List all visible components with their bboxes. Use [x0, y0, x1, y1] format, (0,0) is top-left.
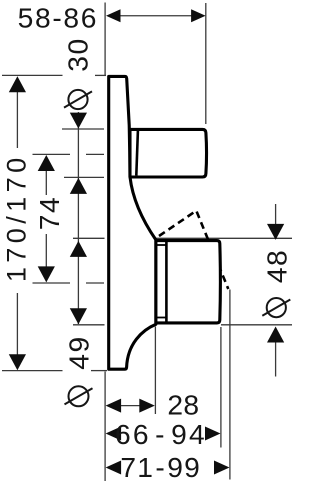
- svg-text:170/170: 170/170: [0, 153, 31, 282]
- arrowhead 74 top: [38, 155, 55, 171]
- wire dim line 74 upper: [45, 169, 47, 195]
- arrowhead 170/170 top: [9, 76, 26, 92]
- volume handle sleeve divider: [165, 241, 168, 323]
- escutcheon plate outline: [109, 76, 156, 369]
- arrowhead 71-99 left: [106, 461, 122, 475]
- arrowhead 74 bottom: [38, 266, 55, 282]
- sleeve step line top: [157, 244, 166, 246]
- arrowhead 66-94 right: [205, 427, 221, 441]
- arrowhead 58-86 left: [106, 9, 121, 22]
- arrowhead 28 left: [106, 399, 122, 413]
- svg-text:30: 30: [61, 37, 93, 72]
- thermostat handle neck line: [136, 131, 138, 176]
- wire extension line hub axis: [33, 282, 71, 284]
- svg-text:66-94: 66-94: [115, 418, 207, 450]
- wire dim line d48 top tail: [275, 204, 277, 226]
- wire extension line hub top left: [73, 237, 105, 239]
- wire extension line handle axis right part: [86, 153, 104, 155]
- arrowhead d48 top: [267, 224, 284, 240]
- arrowhead 66-94 left: [106, 427, 122, 441]
- svg-text:58-86: 58-86: [18, 2, 99, 34]
- wire extension line plate bottom short: [91, 370, 107, 372]
- diameter symbol for 49: [65, 386, 93, 406]
- wire extension line plate top: [2, 74, 63, 76]
- valve handle tilted position (dashed): [159, 211, 228, 289]
- arrowhead 71-99 right: [214, 461, 230, 475]
- wire dim line 170/170 upper: [16, 90, 18, 148]
- svg-text:74: 74: [33, 196, 65, 231]
- svg-text:28: 28: [167, 389, 199, 421]
- svg-text:48: 48: [261, 249, 293, 283]
- diameter symbol for 30: [64, 90, 92, 109]
- arrowhead d30 bottom: [70, 178, 87, 194]
- wire dim line diameters chain: [77, 112, 79, 324]
- arrowhead d48 bottom: [267, 327, 284, 343]
- wire extension line hub axis right part: [86, 282, 104, 284]
- wire extension line plate bottom: [2, 370, 63, 372]
- arrowhead d49 top: [70, 241, 87, 257]
- sleeve step line bottom: [157, 317, 166, 319]
- diameter symbol for 48: [262, 298, 290, 317]
- wire dimension line 58-86: [118, 15, 193, 17]
- arrowhead d30 top: [70, 113, 87, 129]
- wire dimension line 28: [119, 405, 141, 407]
- arrowhead 58-86 right: [191, 9, 206, 22]
- svg-text:71-99: 71-99: [120, 451, 201, 483]
- svg-text:49: 49: [62, 335, 94, 370]
- wire extension line handle axis: [33, 153, 71, 155]
- wire extension line hub top right: [155, 237, 292, 239]
- wire dim line 74 lower: [45, 234, 47, 268]
- wire dim line 170/170 lower: [16, 293, 18, 356]
- arrowhead d49 bottom: [70, 308, 87, 324]
- wire extension line 58-86 right: [205, 3, 207, 124]
- wire extension line plate top short: [95, 74, 106, 76]
- thermostat handle (top): [130, 129, 207, 177]
- wire dim line d48 bottom tail: [275, 341, 277, 377]
- wire extension line hub bottom left: [73, 324, 105, 326]
- wire extension line handle top: [62, 128, 104, 130]
- wire extension line handle bottom: [64, 176, 104, 178]
- volume handle hub (bottom): [156, 241, 221, 323]
- wire extension line hub bottom right: [221, 324, 292, 326]
- wire extension line 71-99 right: [229, 290, 231, 480]
- wire extension line 66-94 right: [220, 327, 222, 448]
- wire wall extension line bottom: [104, 372, 106, 482]
- wire extension line 28 right: [154, 327, 156, 415]
- arrowhead 28 right: [139, 399, 155, 413]
- wire wall extension line top: [104, 3, 106, 77]
- arrowhead 170/170 bottom: [9, 354, 26, 370]
